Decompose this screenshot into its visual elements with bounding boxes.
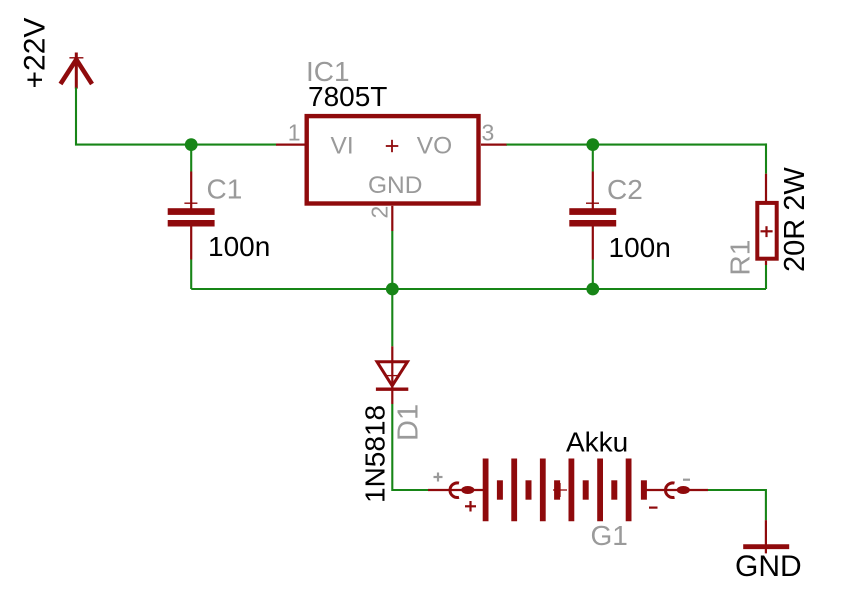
resistor R1 <box>757 203 776 259</box>
op IC1 box <box>307 116 479 203</box>
ground symbol <box>743 544 789 549</box>
wire GND pin <box>765 520 767 553</box>
wire C2 bottom leg <box>592 227 594 260</box>
battery G1 left connector <box>450 483 474 498</box>
wire C2 top leg <box>592 145 594 172</box>
battery G1 cells <box>486 459 644 522</box>
wire R1 top leg <box>765 143 767 173</box>
capacitor C2 <box>569 203 616 226</box>
wire red between battery and right connector <box>644 489 708 491</box>
IC origin cross <box>386 140 399 152</box>
wire down to battery row <box>392 404 428 490</box>
wire R1 bottom leg <box>765 261 767 265</box>
wire pin2 to rail <box>391 231 393 289</box>
battery minus mark gray <box>683 479 690 481</box>
svg-text:C1: C1 <box>207 174 243 205</box>
wire D1 bottom leg <box>391 389 393 404</box>
svg-text:100n: 100n <box>208 231 270 262</box>
svg-text:G1: G1 <box>591 520 628 551</box>
svg-text:2: 2 <box>367 206 393 219</box>
diode D1 <box>376 362 408 390</box>
svg-text:20R 2W: 20R 2W <box>779 167 811 272</box>
svg-text:GND: GND <box>735 550 802 583</box>
wire battery to GND <box>708 490 766 520</box>
battery plus mark gray <box>434 473 443 482</box>
svg-text:100n: 100n <box>609 232 671 263</box>
node junction at C2 bottom <box>586 283 599 296</box>
svg-text:VI: VI <box>331 133 354 160</box>
capacitor C1 <box>168 203 215 226</box>
wire from +22V down and right to IC pin 1 <box>76 88 277 145</box>
wire C1 top leg <box>190 145 192 172</box>
svg-text:1N5818: 1N5818 <box>360 405 391 503</box>
wire bottom rail <box>191 288 766 290</box>
battery G1 right connector <box>666 483 690 498</box>
svg-text:+22V: +22V <box>19 18 52 89</box>
node junction at C1 top <box>185 138 198 151</box>
wire D1 top leg <box>391 289 393 346</box>
svg-text:3: 3 <box>482 120 495 146</box>
supply +22V arrow symbol <box>61 53 93 89</box>
battery minus mark red <box>649 507 658 509</box>
svg-text:Akku: Akku <box>566 427 628 458</box>
wire red stub to battery <box>428 489 483 491</box>
battery plus mark red <box>465 501 476 512</box>
wire pin3 stub <box>481 144 507 146</box>
wire IC pin2 stub <box>391 206 393 231</box>
svg-text:C2: C2 <box>607 174 643 205</box>
svg-text:D1: D1 <box>393 404 425 441</box>
svg-text:7805T: 7805T <box>308 81 387 112</box>
node junction at C2 top <box>586 138 599 151</box>
battery origin cross <box>553 483 567 497</box>
svg-text:R1: R1 <box>725 240 756 276</box>
R1 origin cross <box>761 226 773 237</box>
svg-text:VO: VO <box>417 133 452 160</box>
wire C1 bottom leg <box>190 227 192 260</box>
wire pin1 stub <box>276 144 306 146</box>
wire top rail right <box>507 144 767 146</box>
svg-text:GND: GND <box>368 172 422 199</box>
node junction GND rail <box>386 283 399 296</box>
svg-text:1: 1 <box>288 120 301 146</box>
